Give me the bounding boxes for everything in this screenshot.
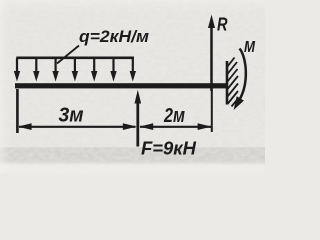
svg-text:3м: 3м [59,103,84,126]
svg-text:F=9кН: F=9кН [141,138,197,159]
svg-text:2м: 2м [163,105,185,127]
svg-text:q=2кН/м: q=2кН/м [79,27,149,46]
svg-text:M: M [244,39,256,56]
svg-text:R: R [217,15,228,35]
